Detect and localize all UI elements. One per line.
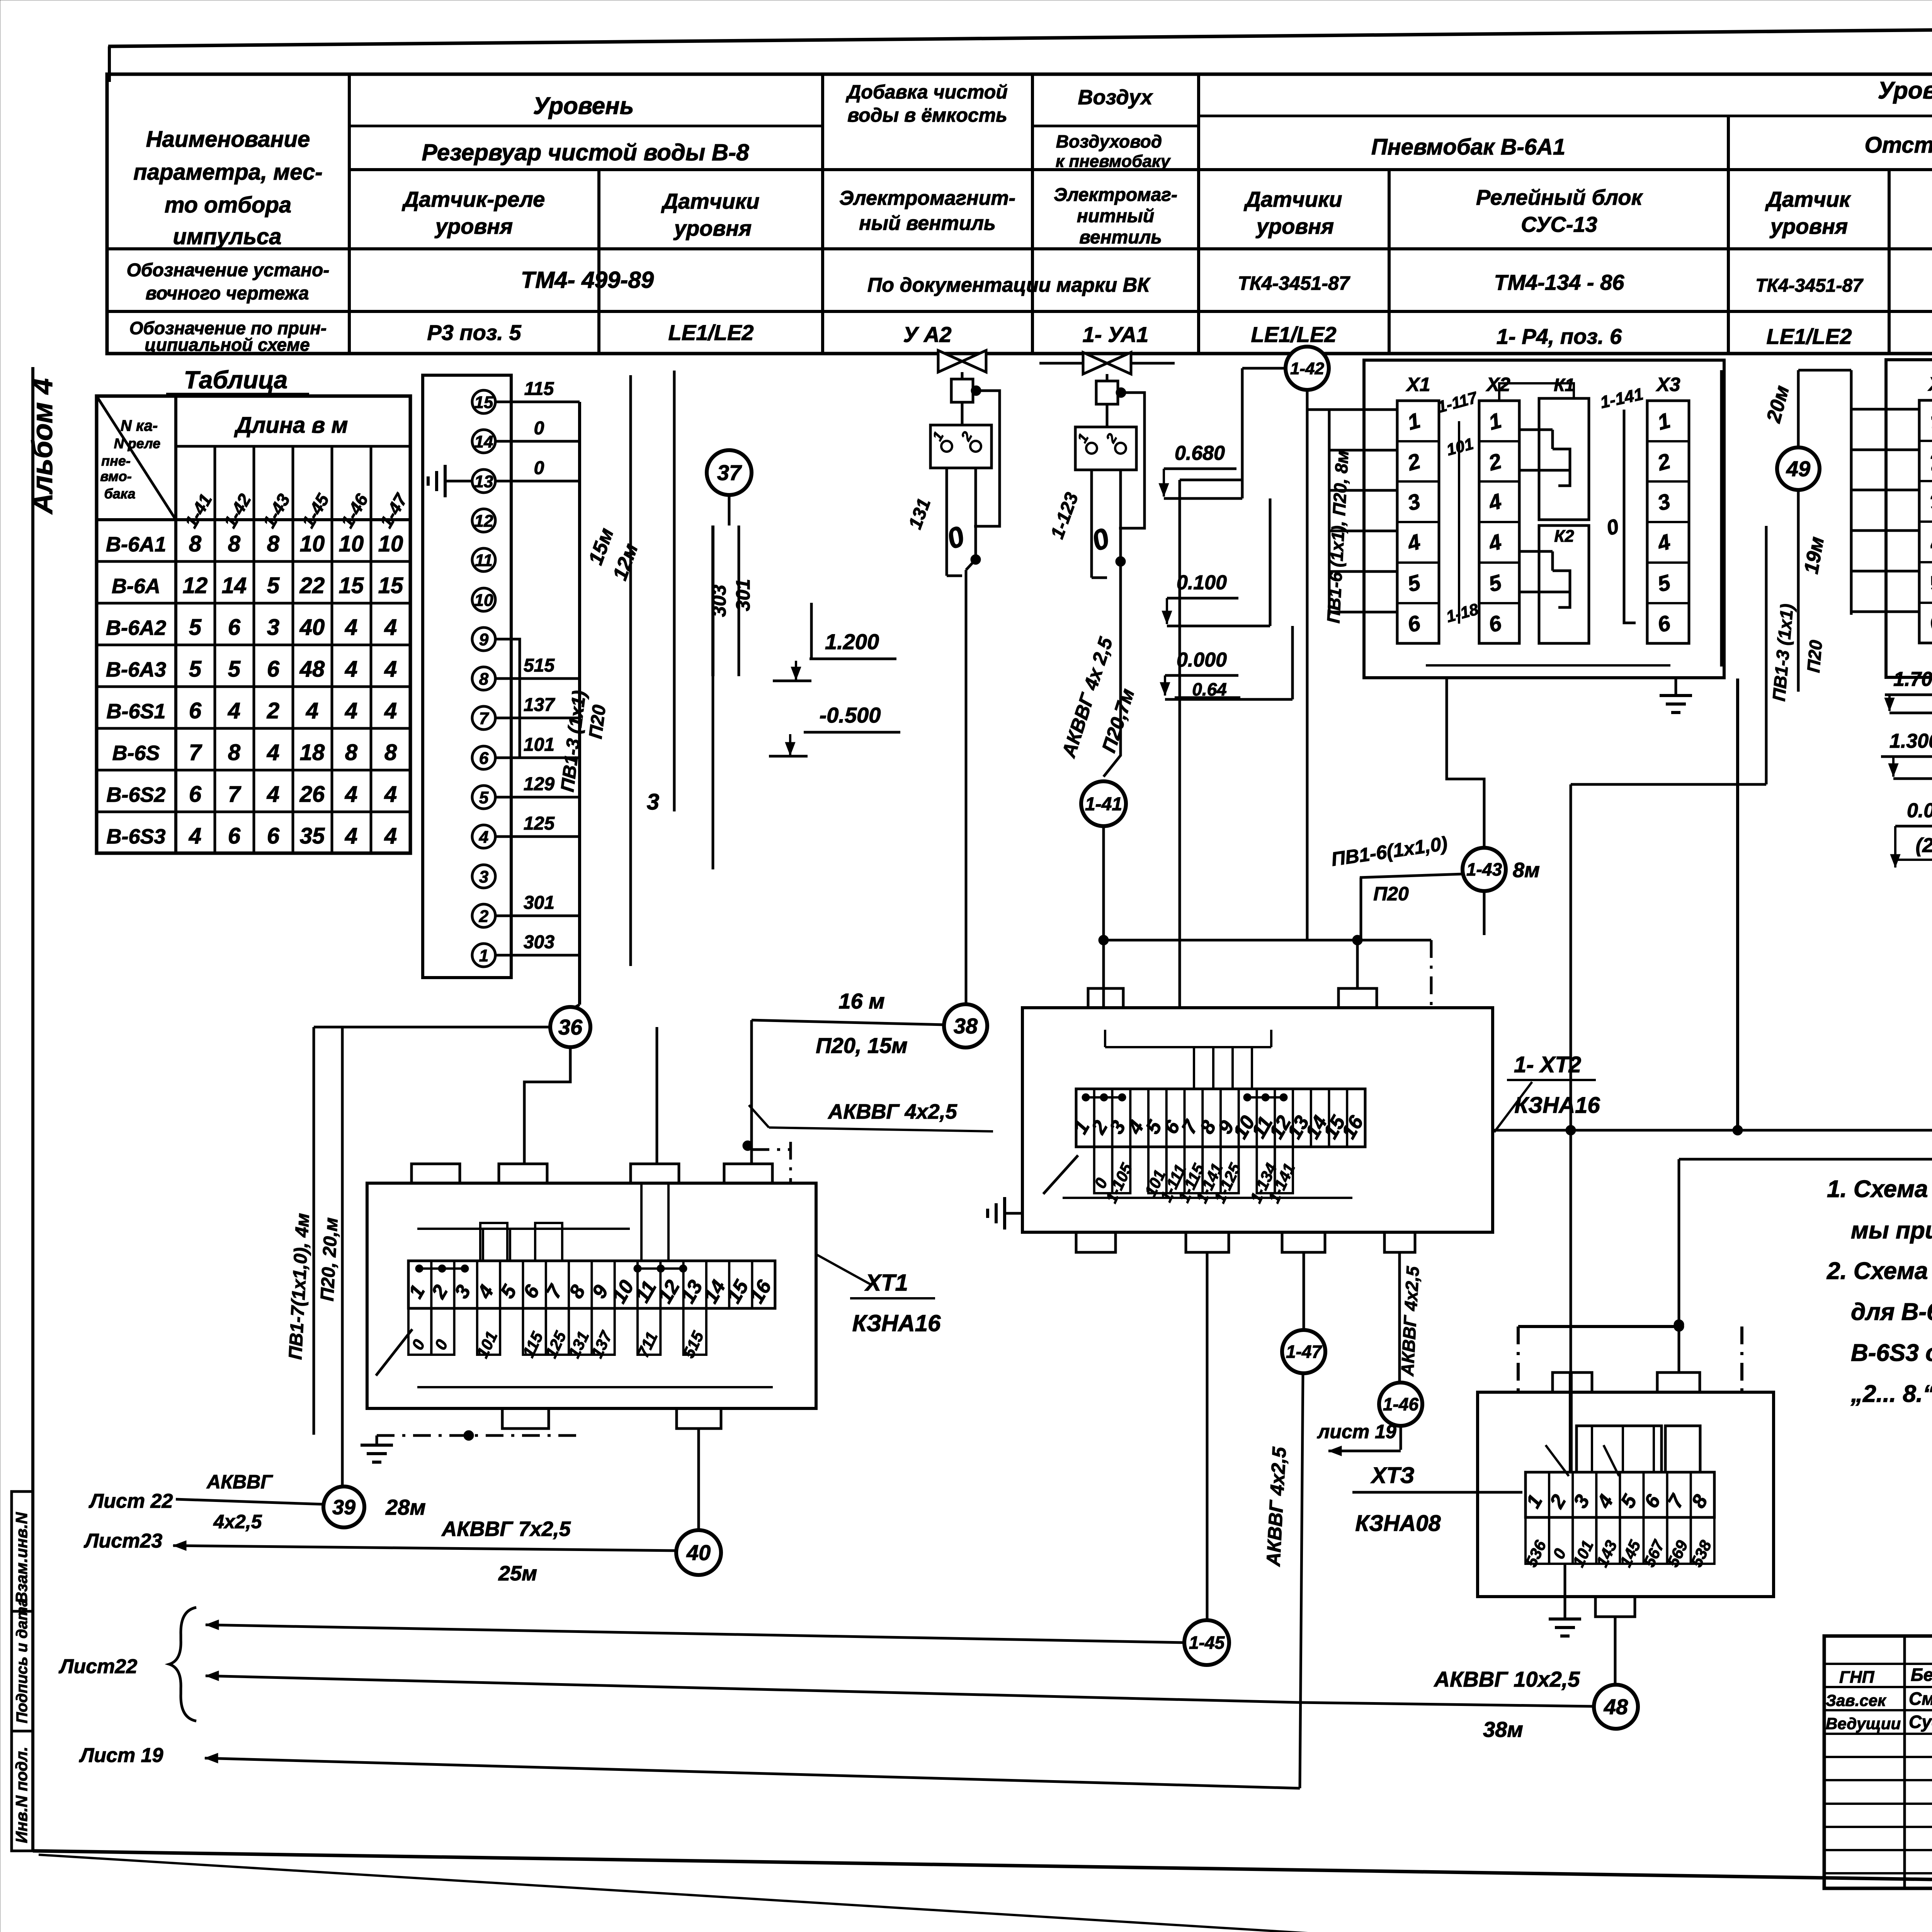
svg-text:К1: К1	[1554, 375, 1575, 395]
block1 left bus stub 3	[1329, 489, 1397, 492]
svg-text:7: 7	[228, 782, 241, 807]
main wire down	[1119, 470, 1122, 561]
svg-text:Лист 22: Лист 22	[88, 1490, 173, 1512]
svg-text:4: 4	[384, 656, 397, 682]
svg-text:7: 7	[479, 709, 490, 728]
svg-text:ный вентиль: ный вентиль	[859, 212, 996, 235]
level line 0.100	[1167, 625, 1270, 628]
svg-text:515: 515	[524, 655, 555, 676]
svg-text:1.700: 1.700	[1893, 668, 1932, 690]
terminal circle 7	[472, 706, 495, 730]
svg-text:8: 8	[384, 740, 397, 765]
svg-text:5: 5	[189, 615, 202, 640]
XT2 inner top link	[1104, 1030, 1106, 1047]
XT2 bottom tabs	[1076, 1232, 1116, 1252]
svg-text:301: 301	[732, 579, 754, 611]
wire 49 down	[1797, 490, 1800, 692]
svg-text:К2: К2	[1554, 527, 1574, 546]
XT2 wire label 1-115	[1185, 1147, 1203, 1193]
top table vertical divider x3102	[1197, 74, 1200, 354]
svg-text:48: 48	[1604, 1695, 1628, 1719]
block2 left bus stub 5	[1851, 570, 1919, 573]
block1 left bus	[1328, 410, 1331, 615]
svg-text:пне-: пне-	[101, 453, 131, 469]
svg-text:0: 0	[534, 458, 544, 478]
svg-text:25м: 25м	[498, 1562, 537, 1585]
svg-text:7: 7	[189, 740, 202, 765]
svg-text:У А2: У А2	[903, 322, 951, 347]
svg-text:уровня: уровня	[434, 214, 513, 238]
XT1 inner bus	[417, 1228, 630, 1230]
terminal circle 11	[472, 548, 495, 571]
svg-text:ТК4-3451-87: ТК4-3451-87	[1238, 272, 1350, 294]
valve symbol at x2865	[1083, 352, 1131, 374]
svg-text:N ка-: N ка-	[121, 417, 158, 434]
wire 52 down-left rail	[1679, 1035, 1932, 1159]
marker circle 1-42	[1286, 347, 1329, 390]
svg-text:4: 4	[306, 698, 318, 723]
wire 49 up to bus	[1797, 370, 1800, 447]
cascade vertical 2	[1269, 498, 1272, 626]
block1 wire X2-K1 a	[1519, 429, 1553, 431]
valve symbol at x2490	[938, 350, 986, 372]
svg-text:48: 48	[299, 656, 325, 682]
left loop vertical ПВ1-7	[313, 1027, 315, 1435]
svg-text:1-41: 1-41	[1085, 794, 1122, 815]
svg-text:37: 37	[717, 461, 742, 485]
wire from terminal 1 label 303	[495, 954, 580, 957]
terminal box 1-2	[1106, 404, 1109, 427]
svg-text:301: 301	[524, 893, 554, 913]
svg-text:к пневмобаку: к пневмобаку	[1056, 152, 1171, 171]
svg-text:18: 18	[300, 740, 325, 765]
XT1 ground dash-dot	[377, 1434, 580, 1437]
svg-text:Х3: Х3	[1655, 374, 1680, 395]
svg-text:9: 9	[479, 630, 489, 649]
block1 left bus stub 5	[1329, 570, 1397, 573]
wire from terminal 7 label 137	[495, 717, 580, 719]
svg-text:1-42: 1-42	[1290, 359, 1325, 378]
svg-text:101: 101	[524, 735, 554, 755]
cable table column divider 3	[292, 446, 294, 853]
svg-text:Таблица: Таблица	[184, 366, 287, 394]
svg-text:Суслов: Суслов	[1909, 1712, 1932, 1732]
terminal circle 8	[472, 667, 495, 690]
svg-text:14: 14	[474, 432, 493, 451]
svg-text:40: 40	[299, 615, 325, 640]
svg-text:15: 15	[378, 573, 403, 598]
svg-text:П20: П20	[585, 704, 610, 740]
svg-text:1- ХТ2: 1- ХТ2	[1514, 1052, 1581, 1077]
block1 wire X2-K2 b	[1519, 591, 1553, 594]
top table underline of Воздух	[1032, 125, 1199, 128]
wire from terminal 13 label 0	[495, 480, 580, 483]
XT3 diagonal a	[1546, 1445, 1569, 1476]
paper bottom edge line	[39, 1855, 1677, 1932]
XT1 terminal strip	[408, 1261, 775, 1308]
svg-text:39: 39	[332, 1496, 355, 1519]
svg-text:N реле: N реле	[114, 435, 160, 451]
svg-text:ХТ1: ХТ1	[864, 1270, 908, 1296]
marker circle 40	[676, 1530, 721, 1575]
svg-text:По документации марки ВК: По документации марки ВК	[867, 274, 1151, 296]
XT3 inner stubs	[1591, 1426, 1593, 1472]
XT1 wire label 115	[523, 1308, 546, 1355]
svg-text:38: 38	[954, 1014, 978, 1038]
block1 left bus stub 6	[1329, 611, 1397, 614]
svg-text:Х1: Х1	[1405, 374, 1430, 395]
svg-text:125: 125	[524, 813, 555, 834]
block1 wire X2-K2 a	[1519, 550, 1553, 553]
block1 wire X2-K1 b	[1519, 469, 1553, 472]
terminal strip box	[423, 375, 511, 978]
block1 K2 box	[1539, 526, 1589, 643]
XT1 leader	[815, 1254, 871, 1285]
svg-text:бака: бака	[104, 486, 135, 502]
svg-text:ГНП: ГНП	[1839, 1668, 1875, 1687]
svg-text:2. Схема подключений для пневм: 2. Схема подключений для пневмобака выпо…	[1827, 1258, 1932, 1284]
XT1 diagonal	[376, 1329, 412, 1376]
wire 1-42 to cascade	[1242, 367, 1285, 370]
svg-text:П20, 15м: П20, 15м	[816, 1033, 907, 1058]
svg-text:LE1/LE2: LE1/LE2	[1251, 322, 1337, 347]
XT2 right rail to 51	[1493, 1129, 1571, 1132]
svg-text:уровня: уровня	[673, 216, 752, 240]
block1 K1 box	[1539, 398, 1589, 520]
marker circle 48	[1594, 1685, 1638, 1729]
svg-text:12: 12	[474, 512, 493, 531]
block2 left drop a	[1720, 370, 1723, 667]
svg-text:Релейный блок: Релейный блок	[1476, 185, 1643, 209]
XT1 wire label 101	[477, 1308, 500, 1355]
border: left frame line	[31, 367, 34, 1851]
svg-text:8: 8	[228, 740, 241, 765]
svg-text:4х2,5: 4х2,5	[213, 1511, 262, 1532]
level line 0.680	[1164, 497, 1242, 500]
svg-text:0: 0	[534, 418, 544, 439]
top table underline of right Уровень	[1199, 115, 1932, 117]
XT3 outer box	[1478, 1392, 1774, 1597]
svg-text:В-6А2: В-6А2	[106, 616, 166, 639]
svg-text:мы принципиальной лист АВК-13.: мы принципиальной лист АВК-13.	[1851, 1217, 1932, 1244]
svg-text:0.680: 0.680	[1175, 442, 1225, 464]
svg-text:10: 10	[474, 591, 493, 610]
XT2 wire label 1-141	[1202, 1147, 1221, 1193]
svg-text:ТК4-3451-87: ТК4-3451-87	[1755, 276, 1864, 296]
main wire down	[975, 468, 977, 560]
cable table column divider 1	[214, 446, 216, 853]
svg-text:КЗНА08: КЗНА08	[1355, 1511, 1441, 1536]
level line 0.000	[1165, 698, 1293, 701]
svg-text:АКВВГ: АКВВГ	[206, 1471, 273, 1493]
svg-text:8: 8	[479, 670, 489, 689]
svg-text:Датчики: Датчики	[661, 189, 760, 213]
rotated wire label 303	[711, 526, 714, 676]
XT2 wire label 1-141	[1275, 1147, 1293, 1193]
channel vertical 2	[673, 371, 676, 811]
svg-text:1-46: 1-46	[1383, 1394, 1418, 1414]
svg-text:4: 4	[228, 698, 240, 723]
svg-text:ХТЗ: ХТЗ	[1370, 1463, 1414, 1488]
svg-text:16 м: 16 м	[838, 989, 884, 1013]
svg-text:лист 19: лист 19	[1317, 1421, 1396, 1442]
top table vertical divider x1550	[597, 170, 600, 354]
brace	[169, 1607, 196, 1721]
XT1 wire label 137	[592, 1308, 614, 1355]
marker circle 1-43	[1463, 848, 1506, 891]
top table vertical divider x3595	[1388, 170, 1391, 354]
XT2 wire label 0	[1094, 1147, 1112, 1193]
top table horizontal line under column headers	[107, 247, 1932, 250]
XT2 wire label 1-111	[1167, 1147, 1185, 1193]
svg-text:Лист23: Лист23	[83, 1530, 163, 1552]
XT1 strip jumper dots	[419, 1267, 465, 1270]
terminal circle 14	[472, 430, 495, 453]
svg-text:нитный: нитный	[1077, 206, 1154, 226]
terminal strip right bus	[578, 402, 581, 1005]
svg-text:вочного чертежа: вочного чертежа	[146, 283, 309, 304]
svg-text:36: 36	[558, 1015, 583, 1039]
XT3 wire label 538	[1691, 1517, 1714, 1564]
svg-text:Смирнова: Смирнова	[1909, 1689, 1932, 1709]
wire from terminal 4 label 125	[495, 835, 580, 838]
block1 K1 top link	[1499, 383, 1574, 401]
svg-text:„2... 8.“: „2... 8.“	[1850, 1381, 1932, 1407]
svg-text:для В-6А1,.для В-6А, В-6А2, В: для В-6А1,.для В-6А, В-6А2, В-6А3,В-6S,1…	[1851, 1299, 1932, 1325]
svg-text:Отстойник В-11А: Отстойник В-11А	[1864, 133, 1932, 158]
svg-text:Длина в м: Длина в м	[234, 413, 348, 438]
bypass wire right	[974, 391, 1000, 526]
wire XT2 to 1-46	[1398, 1252, 1401, 1382]
svg-text:Уровень: Уровень	[533, 93, 634, 119]
XT2 wire label 101	[1148, 1147, 1167, 1193]
cascade vertical 1	[1241, 368, 1244, 498]
svg-text:6: 6	[267, 656, 280, 682]
wire 303/301 drop	[712, 676, 714, 869]
svg-text:Инв.N подл.: Инв.N подл.	[12, 1747, 31, 1843]
wire 40 up to XT1 tab	[697, 1429, 700, 1530]
XT2 strip jumper dots	[1086, 1096, 1122, 1099]
svg-text:6: 6	[228, 615, 241, 640]
svg-text:14: 14	[222, 573, 247, 598]
XT1 inner stubs	[482, 1229, 484, 1261]
rail down to XT3 tab2	[1678, 1159, 1680, 1372]
marker circle 38	[944, 1004, 987, 1048]
XT2 wire label 1-125	[1221, 1147, 1239, 1193]
block1 inter-strip wire	[1458, 421, 1460, 624]
svg-text:1.300: 1.300	[1889, 730, 1932, 752]
arrow line АКВВГ 10х2,5 to 48	[206, 1671, 219, 1681]
wire junction to XT2 tab2	[1356, 940, 1359, 990]
top table vertical divider x4889	[1888, 170, 1891, 354]
block2 left bus stub 6	[1851, 611, 1919, 613]
top table horizontal line under vessel names	[349, 168, 1932, 171]
title block signature columns	[1903, 1636, 1906, 1888]
border: top-left frame stub	[108, 46, 111, 82]
svg-text:В-6S2: В-6S2	[106, 783, 165, 806]
XT2 outer box	[1022, 1008, 1493, 1232]
marker circle 1-41	[1081, 781, 1126, 826]
block2 cascade vertical	[1765, 526, 1768, 784]
svg-text:В-6А: В-6А	[112, 575, 160, 598]
svg-text:4: 4	[384, 698, 397, 723]
valve1 drop to circle 38	[966, 560, 976, 570]
svg-text:2: 2	[267, 698, 279, 723]
wire 48 up	[1614, 1617, 1617, 1685]
marker circle 1-45	[1184, 1620, 1229, 1665]
svg-text:Обозначение устано-: Обозначение устано-	[127, 260, 330, 281]
wire from terminal 6 label 101	[495, 757, 580, 759]
terminal circle 9	[472, 628, 495, 651]
XT3 wire label 567	[1644, 1517, 1667, 1564]
XT2 wire label 1-105	[1112, 1147, 1131, 1193]
XT1 inner rects	[480, 1223, 507, 1261]
XT3 bottom tab	[1595, 1597, 1635, 1617]
svg-text:Альбом 4: Альбом 4	[26, 378, 58, 515]
XT3 wire label 101	[1573, 1517, 1596, 1564]
svg-text:1-45: 1-45	[1189, 1633, 1225, 1653]
svg-text:АКВВГ 7х2,5: АКВВГ 7х2,5	[441, 1517, 571, 1541]
svg-text:СУС-13: СУС-13	[1521, 212, 1597, 236]
svg-text:8: 8	[267, 531, 280, 556]
wire 37 stub down	[728, 495, 731, 526]
wire 1 with label 1-123	[1090, 470, 1093, 578]
svg-text:В-6S: В-6S	[112, 742, 160, 765]
terminal circle 15	[472, 390, 495, 413]
XT1 wire label 0	[431, 1308, 454, 1355]
svg-text:5: 5	[228, 656, 241, 682]
XT1 wire label 125	[546, 1308, 569, 1355]
svg-text:П20: П20	[1373, 883, 1409, 905]
svg-text:49: 49	[1786, 457, 1810, 481]
cable table column divider 2	[253, 446, 255, 853]
svg-text:уровня: уровня	[1255, 214, 1334, 238]
svg-text:22: 22	[299, 573, 325, 598]
svg-text:4: 4	[345, 615, 357, 640]
svg-text:6: 6	[479, 749, 489, 768]
block2 left bus stub 4	[1851, 529, 1919, 532]
terminal circle 13	[472, 469, 495, 493]
block2 left bus stub 2	[1851, 449, 1919, 451]
svg-text:В-6А1: В-6А1	[106, 533, 166, 556]
svg-text:3: 3	[647, 789, 659, 815]
terminal circle 12	[472, 509, 495, 532]
terminal circle 1	[472, 944, 495, 967]
block2 X1 strip	[1919, 400, 1932, 643]
svg-text:1.200: 1.200	[825, 629, 879, 654]
ground at terminal 13	[445, 480, 472, 483]
title block signature rows	[1824, 1663, 1932, 1665]
dash-dot to XT2 top	[1430, 940, 1433, 1008]
svg-text:4: 4	[345, 823, 357, 849]
XT1 bottom tabs	[502, 1408, 549, 1429]
svg-text:0.000: 0.000	[1907, 799, 1932, 822]
svg-text:П20, 20,м: П20, 20,м	[317, 1217, 342, 1302]
block1 K1 contact hook	[1553, 449, 1570, 486]
svg-text:Датчик-реле: Датчик-реле	[402, 187, 545, 211]
svg-text:4: 4	[189, 823, 201, 849]
wire from terminal 14 label 0	[495, 440, 580, 443]
wire bus to circle 36	[571, 1005, 580, 1009]
rail down to XT3 tab1	[1570, 784, 1572, 1372]
svg-text:4: 4	[479, 828, 488, 847]
svg-text:Наименование: Наименование	[146, 127, 310, 152]
cable marker circle 36	[550, 1007, 590, 1047]
svg-text:вентиль: вентиль	[1079, 227, 1162, 248]
svg-text:1. Схема подключений выполнена: 1. Схема подключений выполнена на основа…	[1827, 1176, 1932, 1202]
XT1 bottom inner rail	[417, 1386, 773, 1388]
svg-text:1- УА1: 1- УА1	[1083, 322, 1149, 347]
wire 1-42 down	[1306, 390, 1309, 940]
cable table outer box	[97, 396, 410, 853]
border: top frame line	[108, 23, 1932, 46]
block1 K2 contact hook	[1553, 571, 1570, 607]
svg-text:15: 15	[474, 393, 493, 412]
XT2 ground	[1005, 1212, 1022, 1215]
svg-text:4: 4	[345, 782, 357, 807]
svg-text:Подпись и дата: Подпись и дата	[14, 1598, 31, 1723]
XT2 terminal strip	[1076, 1089, 1365, 1147]
svg-text:8: 8	[189, 531, 202, 556]
svg-text:КЗНА16: КЗНА16	[852, 1310, 941, 1336]
block1 ground stub	[1675, 678, 1677, 696]
wire 38 corner to XT1 tab4	[750, 1020, 753, 1164]
cable table header row underline	[97, 518, 410, 521]
top table vertical divider x2672	[1031, 74, 1034, 354]
terminal circle 10	[472, 588, 495, 611]
svg-text:1- Р4, поз. 6: 1- Р4, поз. 6	[1497, 324, 1622, 349]
svg-text:6: 6	[228, 823, 241, 849]
svg-text:Датчик: Датчик	[1765, 187, 1851, 211]
svg-text:11: 11	[475, 551, 493, 570]
svg-text:5: 5	[189, 656, 202, 682]
cable underline	[1360, 874, 1462, 878]
XT3 wire label 0	[1549, 1517, 1573, 1564]
svg-text:4: 4	[345, 656, 357, 682]
svg-text:6: 6	[189, 782, 202, 807]
svg-text:4: 4	[384, 615, 397, 640]
svg-text:Воздуховод: Воздуховод	[1056, 131, 1162, 151]
svg-text:-0.500: -0.500	[820, 703, 881, 727]
svg-text:Электромагнит-: Электромагнит-	[839, 187, 1015, 209]
wire from terminal 5 label 129	[495, 796, 580, 799]
XT1 wire label 0	[408, 1308, 431, 1355]
block2 relay block outer box	[1886, 360, 1932, 677]
svg-text:КЗНА16: КЗНА16	[1514, 1093, 1600, 1118]
block1 left bus stub 4	[1329, 530, 1397, 532]
wire circle 36 to left loop	[314, 1026, 550, 1029]
border: bottom frame line	[33, 1851, 1932, 1891]
block1 bottom cable	[1447, 678, 1484, 847]
svg-text:импульса: импульса	[173, 224, 281, 249]
block2 cascade to XT3 rail	[1571, 783, 1766, 786]
wire to XT1 tab3	[656, 1027, 658, 1164]
svg-text:Лист22: Лист22	[58, 1655, 138, 1678]
svg-text:ТМ4- 499-89: ТМ4- 499-89	[521, 267, 654, 293]
svg-text:5: 5	[479, 788, 489, 807]
XT1 ground	[376, 1435, 378, 1445]
svg-text:4: 4	[267, 782, 279, 807]
block1 X1 strip	[1397, 401, 1439, 643]
svg-text:1: 1	[479, 946, 488, 965]
top table horizontal line under install-drawing row	[107, 310, 1932, 313]
XT1 dash-dot jog	[752, 1148, 791, 1151]
channel vertical 1	[629, 375, 632, 966]
svg-text:0.100: 0.100	[1177, 571, 1227, 594]
wire 51 down-left rail	[1571, 1041, 1932, 1130]
svg-text:ТМ4-134 - 86: ТМ4-134 - 86	[1494, 270, 1625, 294]
terminal circle 2	[472, 904, 495, 927]
